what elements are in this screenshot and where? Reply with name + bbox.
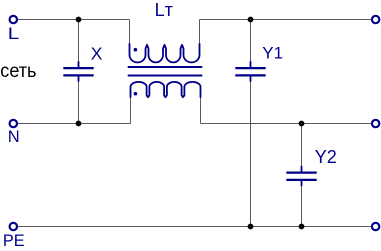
junction L rail / X cap bbox=[76, 17, 82, 23]
wire L rail right segment bbox=[200, 19, 372, 21]
junction L rail / Y1 cap bbox=[248, 17, 254, 23]
capacitor Y2 bbox=[286, 166, 316, 186]
inductor Lт top winding bbox=[130, 43, 200, 62]
wire choke bottom-left lead bbox=[130, 97, 132, 124]
wire choke bottom-right lead bbox=[200, 97, 202, 124]
wire L rail left segment bbox=[18, 19, 130, 21]
label PE bbox=[3, 232, 25, 250]
label L bbox=[8, 25, 19, 43]
wire choke top-right lead bbox=[199, 20, 201, 45]
wire N rail left segment bbox=[18, 123, 131, 125]
svg-text:Y1: Y1 bbox=[262, 44, 283, 63]
inductor Lт bottom winding polarity dot bbox=[134, 92, 138, 96]
svg-text:PE: PE bbox=[3, 232, 25, 250]
capacitor X bbox=[63, 61, 93, 81]
label сеть (mains) bbox=[0, 59, 36, 81]
terminal PE out (right bottom) bbox=[372, 223, 379, 230]
inductor Lт bottom winding bbox=[131, 82, 201, 98]
label N bbox=[8, 128, 20, 146]
wire Y1 branch lower lead bbox=[250, 81, 252, 227]
wire Y2 branch upper lead bbox=[301, 124, 303, 168]
label Lт bbox=[155, 0, 173, 20]
svg-text:N: N bbox=[8, 128, 20, 146]
inductor Lт core bbox=[128, 67, 203, 76]
svg-text:L: L bbox=[8, 25, 19, 43]
wire choke top-left lead bbox=[129, 20, 131, 45]
terminal N out (right middle) bbox=[372, 120, 379, 127]
svg-text:X: X bbox=[91, 43, 103, 63]
junction PE rail / Y1 cap bbox=[248, 224, 254, 230]
svg-text:Y2: Y2 bbox=[315, 147, 337, 167]
terminal PE (input, left bottom) bbox=[10, 223, 17, 230]
junction PE rail / Y2 cap bbox=[299, 224, 305, 230]
wire X branch lower lead bbox=[78, 81, 80, 124]
terminal L (input, left top) bbox=[10, 16, 17, 23]
svg-text:Lт: Lт bbox=[155, 0, 173, 20]
svg-text:сеть: сеть bbox=[0, 59, 36, 81]
terminal L out (right top) bbox=[372, 16, 379, 23]
label Y1 bbox=[262, 44, 283, 63]
wire N rail right segment bbox=[201, 123, 372, 125]
label Y2 bbox=[315, 147, 337, 167]
wire X branch upper lead bbox=[78, 20, 80, 63]
junction N rail / X cap bbox=[76, 121, 82, 127]
junction N rail / Y2 cap bbox=[299, 121, 305, 127]
capacitor Y1 bbox=[235, 61, 265, 81]
wire Y1 branch upper lead bbox=[250, 20, 252, 63]
inductor Lт top winding polarity dot bbox=[134, 48, 138, 52]
wire Y2 branch lower lead bbox=[301, 185, 303, 227]
wire PE rail bbox=[18, 226, 371, 228]
terminal N (input, left middle) bbox=[10, 120, 17, 127]
label X bbox=[91, 43, 103, 63]
